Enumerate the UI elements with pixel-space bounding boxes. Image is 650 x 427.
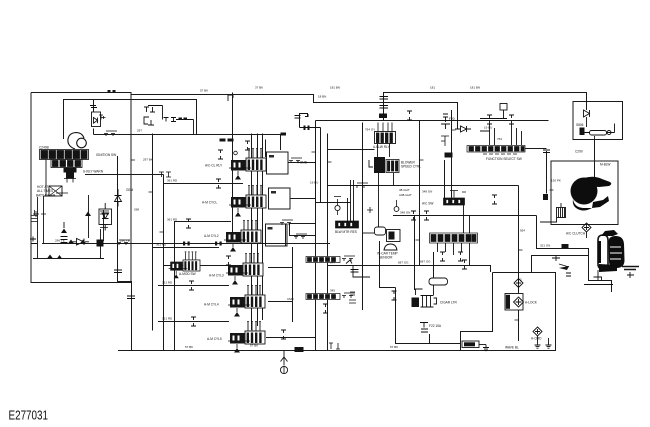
wire relay box internal: [585, 124, 615, 140]
fuse F4 block: [379, 114, 387, 119]
svg-text:19 BU: 19 BU: [484, 126, 492, 130]
svg-text:A-M CYL5: A-M CYL5: [207, 337, 222, 341]
strip CS2: [306, 294, 340, 300]
wire cluster bus x262: [262, 134, 264, 321]
wire y134 feed c1: [94, 135, 281, 151]
blower motor hub: [577, 188, 587, 198]
connector C61: [509, 115, 514, 124]
svg-text:954: 954: [520, 229, 525, 233]
connector C37: [191, 317, 196, 326]
wire y321 feed c6: [158, 321, 229, 323]
connector C43: [281, 330, 286, 339]
wire y285 feed c5: [158, 285, 229, 287]
triangle T1 on y243: [68, 240, 86, 244]
svg-text:57 BK: 57 BK: [250, 344, 258, 348]
diode D1 box: [92, 112, 101, 127]
triangle T2 on y258: [47, 255, 62, 259]
label wire B: [562, 244, 569, 248]
connector C38: [342, 256, 355, 261]
wire x414 lighter feed: [414, 216, 416, 291]
lighter L1 black: [412, 298, 420, 308]
compressor top hook: [601, 230, 618, 236]
wire vertical x152: [152, 134, 154, 331]
tick t1: [312, 152, 332, 162]
wire top bus left: [31, 93, 458, 130]
diamond TL1: [582, 223, 591, 232]
svg-text:M-BLW: M-BLW: [600, 163, 610, 167]
wire c4 out: [268, 267, 293, 269]
svg-text:361 RD: 361 RD: [162, 281, 173, 285]
module M2 pins: [386, 160, 399, 173]
connector C70: [355, 183, 368, 188]
wire y183 feed c2: [164, 183, 244, 185]
wire vertical x173: [175, 222, 232, 351]
connector C54: [458, 252, 463, 261]
compressor blob A1 left lobe: [598, 235, 608, 269]
wire diode to bus: [93, 129, 95, 135]
wire x100 drop: [100, 229, 102, 259]
hook H1 drop: [300, 119, 321, 128]
wire vertical x320: [320, 128, 322, 203]
strip CS3 black: [336, 221, 359, 228]
svg-text:F20: F20: [449, 117, 455, 121]
svg-text:361 RD: 361 RD: [167, 218, 178, 222]
wire mid long y243: [42, 243, 330, 245]
wire m3 link: [363, 232, 375, 234]
tick pair y243 b: [215, 242, 217, 246]
svg-text:A/C CLUTCH: A/C CLUTCH: [566, 232, 586, 236]
connector C35: [226, 256, 231, 265]
diamond TL4: [533, 327, 542, 336]
wire x380 drop: [380, 241, 396, 288]
circle node B: [607, 131, 611, 135]
ground G2 circle: [335, 205, 340, 210]
relay K5: [228, 286, 265, 317]
ground G5: [546, 342, 552, 348]
cap on x131: [127, 296, 135, 299]
svg-text:CMD: CMD: [287, 297, 295, 301]
key-in switch S2: [64, 168, 77, 173]
connector C36: [189, 281, 194, 290]
module M4 box: [462, 341, 479, 348]
svg-text:BATT SAVER: BATT SAVER: [36, 194, 56, 198]
relay K7 pins: [375, 123, 396, 144]
marks above R9: [56, 190, 68, 196]
connector C55: [462, 260, 467, 269]
ignition switch connector row2: [51, 160, 82, 168]
wire bottom long: [118, 350, 461, 352]
svg-text:321 GN: 321 GN: [540, 244, 550, 248]
svg-text:37 BK: 37 BK: [255, 86, 263, 90]
wire B heater feed: [532, 256, 589, 273]
connector C72: [492, 195, 497, 204]
wire vertical x549: [546, 151, 548, 194]
wire L jog: [346, 173, 379, 277]
wire j2 links: [480, 110, 522, 145]
diode D3: [71, 239, 89, 246]
ground G401: [281, 351, 288, 366]
connector C203 pair: [117, 240, 130, 245]
relay K3: [224, 221, 261, 252]
svg-text:38-GHT: 38-GHT: [399, 188, 410, 192]
circle node M2g: [394, 207, 399, 212]
svg-text:FUNCTION SELECT SW: FUNCTION SELECT SW: [486, 157, 522, 161]
resistor R2 bits: [441, 114, 450, 129]
box c2 right: [269, 188, 291, 209]
hook H1 wire: [300, 114, 309, 119]
wire K6 out: [266, 337, 316, 339]
svg-text:181 BN: 181 BN: [470, 86, 480, 90]
connector C30: [218, 150, 223, 159]
svg-text:F22 15A: F22 15A: [429, 324, 442, 328]
AC strip CS4: [444, 198, 465, 205]
svg-text:A/C SW: A/C SW: [422, 202, 433, 206]
lighter L1 socket: [421, 296, 437, 308]
svg-text:S-KEY WARN: S-KEY WARN: [83, 170, 104, 174]
cap marks x546: [543, 150, 550, 153]
ignition switch connector C1 strip: [40, 150, 89, 160]
svg-text:361 RD: 361 RD: [162, 317, 173, 321]
module M2 black: [374, 157, 385, 173]
wire vertical x315: [315, 121, 317, 351]
wire y265 feed c4: [164, 265, 229, 267]
svg-text:130 PK: 130 PK: [551, 179, 561, 183]
tick pair T5: [304, 126, 306, 131]
svg-text:2: 2: [520, 278, 522, 282]
connector C33: [186, 219, 191, 228]
module M4 inner: [464, 342, 475, 346]
strip CS1: [306, 257, 340, 263]
capacitor C4: [61, 229, 67, 234]
marks x352 lower: [349, 292, 356, 303]
svg-text:S806: S806: [576, 123, 584, 127]
wire vertical x383 lower: [383, 103, 385, 121]
svg-text:A-MOD SW: A-MOD SW: [179, 272, 196, 276]
relay K6: [228, 322, 265, 353]
svg-text:57 BK: 57 BK: [185, 345, 193, 349]
wire cs5 drops: [438, 205, 470, 265]
svg-text:C240B: C240B: [39, 146, 49, 150]
triangle junction wireB: [559, 266, 569, 270]
wire c1 out: [288, 162, 316, 164]
wire vertical x131: [130, 93, 132, 282]
resistor R9: [49, 186, 62, 196]
cap on x118: [114, 270, 122, 273]
box c3 right outer: [290, 224, 316, 236]
box heater bottom right: [461, 273, 556, 351]
connector C10 mark: [33, 211, 46, 217]
bracket B2: [369, 160, 373, 167]
strip CS6: [467, 146, 525, 153]
tick x370: [367, 207, 373, 213]
svg-text:SPEED CTRL: SPEED CTRL: [401, 165, 421, 169]
svg-text:T-CMD: T-CMD: [297, 161, 308, 165]
wire L1 drop: [416, 285, 434, 295]
blower resistor hatch: [557, 203, 566, 218]
relay K4: [226, 254, 263, 285]
label smudge bus: [108, 90, 111, 93]
svg-text:297: 297: [137, 129, 142, 133]
tick t2: [131, 160, 164, 232]
wire comp stub: [584, 270, 613, 285]
wire stub x43: [44, 196, 56, 243]
splice S10: [30, 237, 37, 244]
label c1 feed smudge: [220, 139, 226, 142]
wire G5 stub: [548, 338, 550, 342]
wire c5 out: [268, 301, 293, 303]
svg-text:A38-GHT: A38-GHT: [399, 193, 412, 197]
splice box S11: [97, 240, 104, 247]
wire y174 switch out: [85, 174, 164, 176]
fuse F1 cluster: [144, 107, 155, 125]
wire TL4 stub: [537, 336, 539, 342]
connector C80: [159, 172, 171, 177]
capacitor C12: [100, 211, 109, 228]
connector tick wireB: [552, 255, 571, 276]
wire inner loop bottom: [33, 258, 104, 260]
cluster X9 bits: [85, 212, 91, 217]
module M3 rounded: [375, 227, 386, 235]
tick t3: [416, 130, 456, 240]
tick pair y243 a: [183, 242, 185, 246]
svg-text:A/C-CL RLY: A/C-CL RLY: [205, 164, 223, 168]
hatch exit wire: [540, 218, 557, 222]
svg-text:687 OG: 687 OG: [420, 260, 431, 264]
compressor arm right: [622, 267, 639, 270]
svg-text:57 BK: 57 BK: [200, 89, 208, 93]
wire x265 stub: [265, 140, 267, 158]
wire cs3 risers: [348, 180, 354, 221]
box blower relay: [573, 102, 623, 140]
wire y149 to module: [328, 149, 375, 151]
svg-text:GEM: GEM: [126, 188, 134, 192]
wire right bus x292: [292, 247, 294, 322]
connector C30b: [245, 141, 250, 150]
connector C39: [342, 293, 355, 298]
svg-text:57 BK: 57 BK: [390, 345, 398, 349]
marks below CS6: [483, 153, 517, 155]
capacitor C50 on x381: [380, 97, 389, 109]
connector C202 on bus: [104, 131, 117, 136]
relay K2: [229, 186, 266, 217]
wire vertical x419: [419, 121, 421, 266]
wire x429 bits drop: [429, 334, 431, 344]
svg-text:A-BLW RLY: A-BLW RLY: [373, 145, 391, 149]
wire left box left edge: [31, 93, 131, 283]
strip CS5 long: [430, 233, 478, 243]
svg-text:CIGAR LTR: CIGAR LTR: [440, 301, 457, 305]
tick t4: [515, 190, 554, 320]
wire x433 lighter drop: [433, 252, 435, 278]
vacuum motor V1 core: [506, 295, 510, 309]
svg-text:345: 345: [330, 289, 335, 293]
relay K1: [229, 149, 266, 180]
diode D4: [115, 189, 122, 207]
wire diode drop: [93, 100, 95, 113]
diamond TL3: [514, 297, 524, 307]
wire x46 strip drop: [45, 160, 47, 197]
diode D1: [90, 106, 98, 124]
svg-text:A-M CYL2: A-M CYL2: [204, 234, 219, 238]
svg-text:296 YE: 296 YE: [55, 239, 65, 243]
connector C32: [216, 179, 221, 188]
wire strip to blower: [525, 148, 547, 150]
wire vertical x163: [163, 175, 165, 351]
relay K4b aux: [169, 252, 200, 278]
compressor bottom band: [599, 264, 617, 272]
wire vertical x518 heater: [518, 216, 520, 342]
svg-text:361 RD: 361 RD: [167, 179, 178, 183]
connector C74: [323, 304, 328, 313]
svg-text:IGNITION SW: IGNITION SW: [96, 153, 116, 157]
svg-text:A-LOCK: A-LOCK: [525, 301, 538, 305]
wire M4 link: [479, 344, 486, 346]
fuse F5 bits: [420, 323, 428, 333]
wire stub x37: [37, 197, 39, 258]
wire cluster bus x251: [251, 134, 253, 331]
svg-text:181: 181: [430, 86, 435, 90]
svg-text:297 BK: 297 BK: [143, 158, 153, 162]
svg-text:A-M CYL4: A-M CYL4: [204, 303, 219, 307]
svg-text:A-CMD: A-CMD: [531, 337, 542, 341]
wire x395 drop to y343: [396, 288, 461, 344]
capacitor C11: [32, 210, 38, 222]
ignition switch S1 barrel: [77, 138, 87, 148]
wire vertical x362: [362, 123, 364, 311]
diode D6: [455, 126, 471, 132]
circle node A: [234, 151, 238, 155]
connector C52: [424, 211, 429, 220]
ground G4: [483, 345, 489, 351]
svg-text:E277031: E277031: [9, 409, 49, 423]
svg-text:ALL TIMES: ALL TIMES: [37, 189, 53, 193]
svg-text:A-M CYL3: A-M CYL3: [209, 274, 224, 278]
svg-text:181 BN: 181 BN: [330, 86, 340, 90]
wire relay box drop: [594, 140, 596, 179]
wire y202: [316, 202, 351, 204]
compressor blob A1 right lobe: [609, 236, 625, 268]
hook H1 cap: [295, 116, 301, 119]
wire elbow 118-131: [118, 156, 132, 351]
wire y216 AC feed: [393, 215, 537, 217]
diode D2: [99, 209, 112, 225]
wire TL1 stub: [586, 232, 588, 238]
wire c2 out: [290, 198, 316, 200]
connector C73: [294, 234, 307, 239]
wire right stub x285: [285, 225, 287, 246]
capacitor C3 marks: [99, 115, 106, 120]
thermal fuse TF1: [580, 128, 585, 136]
box c3 right: [266, 224, 288, 246]
module M3 box: [387, 230, 401, 242]
svg-text:A-M CYCL: A-M CYCL: [202, 201, 217, 205]
svg-text:361 RD: 361 RD: [156, 243, 167, 247]
box left outer partial right: [232, 93, 234, 233]
diamond TL2: [514, 279, 523, 288]
wire y122 right: [316, 120, 549, 122]
svg-text:298: 298: [134, 208, 139, 212]
connector C31: [289, 158, 302, 163]
box label dashes: [269, 155, 274, 158]
box blower motor: [551, 161, 618, 225]
wire cluster bus x257: [257, 134, 259, 327]
svg-text:348 GN: 348 GN: [422, 190, 432, 194]
ignition switch S1 lever: [68, 133, 84, 150]
svg-text:BLW MTR RES: BLW MTR RES: [335, 230, 357, 234]
wire K7-M2 links: [378, 144, 394, 186]
label f2 dashes: [179, 118, 183, 121]
label bottom wire: [295, 347, 304, 352]
diode D5: [584, 110, 590, 127]
cap marks x362: [346, 260, 359, 272]
connector C60 pairs: [487, 115, 492, 124]
resistor R3: [590, 131, 607, 136]
wire vertical x451: [451, 110, 453, 198]
blower motor B1 blob: [571, 177, 612, 211]
splice bits S20: [441, 136, 449, 146]
wire top line1: [384, 93, 587, 111]
svg-text:348 GN: 348 GN: [400, 211, 410, 215]
wire y265 center: [328, 266, 491, 273]
svg-text:296 YE: 296 YE: [120, 239, 130, 243]
svg-text:WAVE BL: WAVE BL: [505, 346, 519, 350]
connector C51: [411, 211, 416, 220]
sensor dome E1: [384, 244, 397, 250]
wire stepped right: [537, 216, 612, 293]
vacuum motor V1 box: [505, 294, 523, 311]
bits above CS4: [450, 191, 466, 198]
label smudge near c1: [281, 133, 287, 136]
svg-text:344: 344: [330, 261, 335, 265]
svg-text:754 GY: 754 GY: [365, 128, 375, 132]
connector C34: [280, 220, 293, 225]
compressor marks right: [627, 272, 634, 278]
svg-text:18 BN: 18 BN: [318, 95, 326, 99]
wire y185 long: [328, 185, 519, 187]
svg-text:754: 754: [497, 137, 502, 141]
wire vertical x327: [327, 134, 329, 351]
svg-text:SENSOR: SENSOR: [379, 256, 393, 260]
connector C53: [440, 252, 445, 261]
svg-text:687 OG: 687 OG: [398, 261, 409, 265]
svg-text:19 BU: 19 BU: [310, 181, 318, 185]
junction box J2: [500, 104, 507, 111]
box c1 right: [267, 152, 289, 174]
ground G3: [535, 342, 541, 348]
wire x518 upper: [518, 186, 520, 216]
fuse F2 pair: [148, 106, 194, 135]
pill P1: [429, 278, 448, 285]
wire y247 feed c4: [153, 247, 220, 249]
svg-text:C290: C290: [575, 150, 583, 154]
connector C75: [407, 111, 412, 120]
bracket hook B1: [228, 95, 233, 101]
wire x444 cs4 feed: [444, 160, 446, 198]
wire inner box top: [64, 100, 197, 140]
connector C71: [392, 291, 397, 300]
